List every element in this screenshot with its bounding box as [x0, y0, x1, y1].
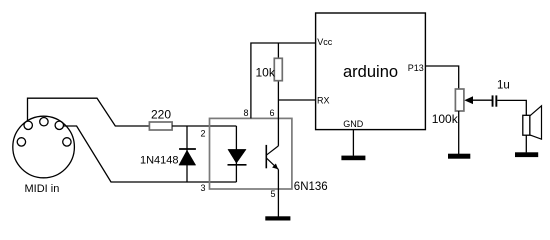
IC U1 arduino box — [316, 13, 426, 130]
LED inside optocoupler — [228, 126, 247, 182]
svg-text:RX: RX — [317, 95, 330, 105]
svg-text:P13: P13 — [408, 63, 424, 73]
connector J1 MIDI in body circle — [13, 116, 75, 178]
ground under speaker — [515, 152, 538, 157]
wire speaker to ground — [525, 135, 527, 152]
wire potentiometer bottom to ground — [458, 111, 460, 154]
resistor R1 220 — [149, 107, 172, 130]
svg-text:MIDI in: MIDI in — [25, 183, 60, 195]
pin 3 (upper-right) of MIDI connector — [55, 121, 63, 129]
diode D1 1N4148 — [140, 126, 196, 182]
pin 1 (upper-left) of MIDI connector — [24, 121, 32, 129]
wire P13 to potentiometer top — [425, 66, 458, 89]
svg-text:2: 2 — [201, 129, 206, 139]
svg-text:10k: 10k — [256, 65, 276, 79]
speaker LS1 — [523, 106, 542, 139]
svg-text:3: 3 — [201, 183, 206, 193]
svg-text:Vcc: Vcc — [317, 37, 333, 47]
svg-text:6N136: 6N136 — [294, 181, 328, 193]
potentiometer R3 100k — [432, 89, 492, 126]
ground under potentiometer — [448, 154, 470, 159]
phototransistor inside optocoupler — [266, 145, 278, 170]
svg-text:100k: 100k — [432, 112, 459, 126]
op-toisolator U2 6N136 package box — [210, 118, 328, 193]
wire pin 5 to ground — [277, 169, 279, 216]
svg-text:1N4148: 1N4148 — [140, 155, 179, 167]
svg-text:arduino: arduino — [343, 63, 398, 81]
svg-text:8: 8 — [244, 108, 249, 118]
wire from MIDI pin to 220 resistor — [28, 98, 150, 126]
svg-text:6: 6 — [270, 108, 275, 118]
svg-text:5: 5 — [271, 189, 276, 199]
ground under optocoupler pin 5 — [265, 216, 290, 220]
svg-text:220: 220 — [151, 107, 171, 121]
wire from MIDI pin to optocoupler pin 3 — [64, 126, 237, 182]
capacitor C1 1u — [492, 80, 510, 107]
wire pin6 vertical: Vcc down through 10k to transistor collector — [277, 43, 279, 146]
ground under arduino GND — [341, 156, 365, 161]
wire RX from junction to arduino — [278, 99, 315, 101]
wire capacitor to speaker — [497, 100, 526, 115]
wire arduino GND down — [352, 130, 354, 156]
wire from 220 resistor to optocoupler pin 2 and LED anode — [172, 125, 236, 127]
svg-text:1u: 1u — [497, 80, 510, 92]
pin 2 (lower-left) of MIDI connector — [17, 138, 25, 146]
resistor R2 10k — [256, 58, 283, 80]
wire Vcc rail from pin 8 corner to arduino Vcc — [251, 43, 316, 118]
pin 4 (top-center) of MIDI connector — [40, 118, 48, 126]
svg-text:GND: GND — [343, 119, 364, 129]
pin 5 (lower-right) of MIDI connector — [63, 138, 71, 146]
